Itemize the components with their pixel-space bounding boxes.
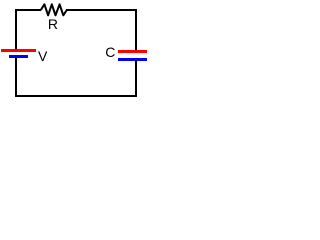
wire left upper (top corner to battery)	[15, 9, 17, 49]
capacitor C top plate (red)	[118, 50, 147, 53]
label R	[48, 17, 58, 31]
battery V positive plate (red)	[1, 49, 36, 52]
wire top-left segment	[15, 9, 41, 11]
wire left lower (battery to bottom corner)	[15, 58, 17, 98]
label V	[38, 49, 47, 63]
wire top-right segment	[66, 9, 137, 11]
wire bottom	[15, 95, 137, 97]
capacitor C bottom plate (blue)	[118, 58, 147, 61]
resistor R	[0, 0, 152, 103]
label C	[105, 45, 115, 59]
wire right lower (capacitor to bottom corner)	[135, 60, 137, 97]
battery V negative plate (blue)	[9, 55, 28, 58]
wire right upper (top corner to capacitor)	[135, 9, 137, 50]
